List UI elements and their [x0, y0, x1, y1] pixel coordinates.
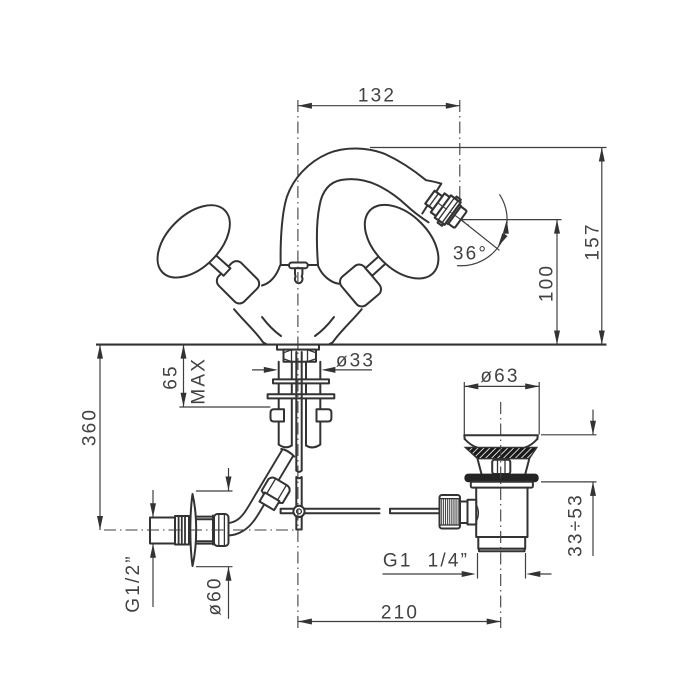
dim 157	[370, 148, 607, 345]
svg-text:360: 360	[80, 408, 101, 446]
svg-text:65: 65	[161, 364, 182, 390]
svg-text:G1 1/4”: G1 1/4”	[383, 551, 469, 572]
collar	[471, 482, 533, 488]
dim 100	[462, 220, 562, 345]
body boss arc	[476, 505, 478, 522]
supply tubes	[279, 362, 321, 446]
centerline drain axis	[500, 402, 502, 628]
compression fitting	[256, 476, 291, 513]
funnel sides	[465, 439, 538, 447]
body left U curve	[262, 266, 280, 286]
waist sides	[478, 459, 530, 474]
handle ellipse left	[144, 192, 243, 291]
dim o33	[252, 369, 372, 371]
knurled knob	[440, 495, 461, 529]
handle stem left	[204, 250, 231, 275]
vertical rod strip	[296, 352, 301, 471]
dim 36deg angle	[461, 220, 500, 251]
wire: spout outer curve	[281, 148, 442, 265]
valve escutcheon block right	[337, 262, 384, 310]
tube cut ends	[279, 445, 321, 448]
spout end face line	[422, 184, 441, 214]
hose (stroked outline trick)	[228, 453, 288, 530]
tail pipe	[478, 537, 525, 549]
centerline spout outlet vertical	[459, 100, 461, 207]
washer 1	[273, 379, 329, 383]
body skirt right edge	[330, 309, 362, 344]
wire: spout inner curve	[317, 179, 429, 265]
body top shelf	[281, 264, 316, 266]
dim o60	[196, 468, 233, 619]
thread block	[175, 516, 189, 545]
escutcheon bell	[190, 494, 196, 566]
rod joint	[293, 506, 304, 517]
horizontal rod right segment	[390, 509, 442, 514]
centerline wall valve	[104, 529, 302, 531]
svg-text:ø60: ø60	[205, 576, 226, 615]
dim G1 1/4	[383, 553, 552, 579]
funnel rim	[464, 435, 538, 439]
knob neck	[460, 502, 468, 524]
svg-text:MAX: MAX	[189, 357, 210, 405]
pop-up T handle	[289, 263, 308, 269]
handle stem right	[365, 250, 392, 275]
body right U curve	[318, 266, 339, 284]
aerator assembly at 36deg	[420, 184, 470, 232]
horizontal rod left segment	[281, 509, 380, 514]
dim 360	[99, 345, 101, 530]
hatched cone	[465, 447, 537, 458]
svg-text:157: 157	[583, 222, 604, 260]
svg-text:132: 132	[358, 86, 396, 107]
dim G1/2	[152, 490, 154, 607]
hose top cut end	[281, 449, 294, 457]
valve neck	[197, 517, 213, 544]
body flare curve left	[262, 317, 281, 336]
dim 210	[298, 621, 501, 623]
svg-text:33÷53: 33÷53	[566, 493, 587, 557]
dim 65 MAX	[179, 345, 270, 407]
svg-text:G1/2”: G1/2”	[123, 554, 144, 613]
body cylinder	[476, 488, 527, 537]
svg-text:100: 100	[537, 264, 558, 302]
body skirt left edge	[234, 309, 266, 344]
dim o63	[464, 382, 539, 435]
base plinth	[277, 345, 319, 350]
mounting block right	[317, 409, 332, 421]
centerline aerator axis 36deg	[437, 203, 470, 227]
valve escutcheon block left	[214, 258, 262, 306]
body flare curve right	[315, 317, 334, 336]
svg-text:210: 210	[381, 603, 419, 624]
handle ellipse right	[351, 191, 452, 292]
baseline countertop	[96, 344, 607, 346]
svg-text:ø63: ø63	[480, 366, 519, 387]
dim 33-53	[541, 410, 597, 556]
svg-text:ø33: ø33	[336, 351, 375, 372]
centerline faucet axis	[297, 100, 299, 628]
dim 132	[298, 105, 460, 107]
mounting nut	[284, 350, 317, 362]
valve hex nut	[214, 514, 229, 546]
mounting block left	[271, 409, 285, 421]
overflow knob	[492, 460, 510, 474]
svg-text:36°: 36°	[453, 244, 488, 265]
washer 2	[268, 394, 335, 398]
pipe stub	[150, 518, 176, 544]
black flange	[465, 474, 538, 482]
